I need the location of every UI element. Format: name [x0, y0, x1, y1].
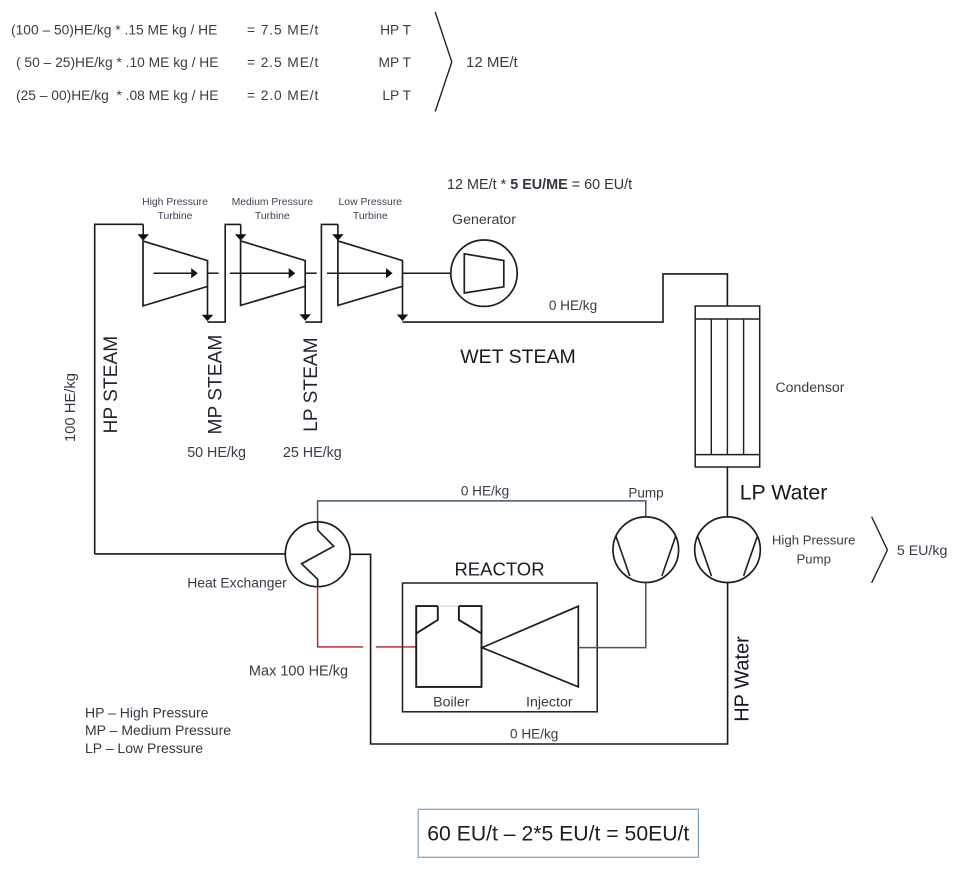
arrowhead into T2 — [235, 234, 246, 241]
label Low Pressure Turbine — [339, 197, 403, 222]
label High Pressure Turbine — [142, 197, 208, 222]
wire T2 exhaust down — [304, 286, 306, 315]
wire feed into turbine T1 — [142, 224, 144, 235]
equation line 3 LP — [16, 88, 412, 103]
brace chevron sum — [435, 12, 452, 112]
svg-text:REACTOR: REACTOR — [454, 558, 544, 579]
svg-text:5 EU/kg: 5 EU/kg — [897, 543, 947, 559]
shaft stub T2-T3 — [305, 272, 317, 274]
svg-text:0 HE/kg: 0 HE/kg — [461, 484, 509, 499]
generator G — [451, 240, 517, 306]
svg-text:60 EU/t – 2*5 EU/t = 50EU/t: 60 EU/t – 2*5 EU/t = 50EU/t — [427, 823, 689, 846]
svg-text:12 ME/t: 12 ME/t — [466, 54, 519, 71]
svg-text:100 HE/kg: 100 HE/kg — [63, 373, 79, 442]
svg-text:(100 – 50)HE/kg * .15 ME kg /: (100 – 50)HE/kg * .15 ME kg / HE — [11, 23, 217, 38]
shaft arrow inside T3 — [327, 272, 386, 274]
result box — [418, 809, 698, 857]
wire left feed to heat exchanger — [95, 553, 286, 555]
wire HP steam riser left — [95, 224, 144, 554]
svg-text:HP STEAM: HP STEAM — [101, 336, 122, 434]
heat exchanger HX — [285, 522, 350, 587]
turbine T2 Medium Pressure — [241, 241, 306, 306]
svg-text:HP – High Pressure: HP – High Pressure — [85, 705, 209, 721]
svg-text:MP – Medium Pressure: MP – Medium Pressure — [85, 722, 231, 738]
shaft arrow inside T2 — [230, 272, 289, 274]
label Medium Pressure Turbine — [232, 197, 314, 222]
wire feed into turbine T2 — [240, 224, 242, 235]
svg-text:LP – Low Pressure: LP – Low Pressure — [85, 740, 203, 756]
svg-text:12 ME/t * 5 EU/ME = 60 EU/t: 12 ME/t * 5 EU/ME = 60 EU/t — [447, 177, 632, 193]
svg-text:Turbine: Turbine — [255, 211, 290, 222]
svg-text:= 7.5 ME/t: = 7.5 ME/t — [247, 23, 319, 38]
svg-text:Medium Pressure: Medium Pressure — [232, 197, 314, 208]
svg-text:Condensor: Condensor — [776, 379, 845, 395]
svg-text:MP STEAM: MP STEAM — [206, 335, 227, 435]
pump P2 high pressure — [695, 517, 761, 583]
svg-text:Turbine: Turbine — [353, 211, 388, 222]
svg-text:25 HE/kg: 25 HE/kg — [283, 445, 342, 461]
wire feed into turbine T3 — [337, 224, 339, 235]
wire HX to HP water return — [350, 554, 727, 744]
wire wet steam to condenser — [403, 274, 728, 322]
svg-text:High Pressure: High Pressure — [772, 533, 856, 548]
arrowhead into T1 — [138, 234, 149, 241]
svg-text:HP T: HP T — [380, 23, 412, 38]
equation line 1 HP — [11, 23, 412, 38]
equation line 2 MP — [16, 55, 412, 70]
svg-text:Max 100 HE/kg: Max 100 HE/kg — [249, 664, 348, 680]
svg-text:Boiler: Boiler — [433, 694, 470, 710]
arrowhead T3 exhaust — [397, 315, 408, 322]
svg-text:WET STEAM: WET STEAM — [460, 346, 576, 368]
svg-text:Pump: Pump — [796, 552, 830, 567]
shaft to generator — [403, 272, 452, 274]
wire T1 exhaust down — [207, 286, 209, 315]
wire hot max 100 HE/kg red — [318, 587, 364, 647]
shaft arrow inside T1 — [154, 272, 192, 274]
wire T3 exhaust down — [402, 286, 404, 315]
svg-text:LP Water: LP Water — [740, 481, 828, 505]
svg-text:Low Pressure: Low Pressure — [339, 197, 403, 208]
arrowhead T2 exhaust — [300, 314, 311, 321]
svg-text:MP T: MP T — [379, 55, 412, 70]
injector — [482, 606, 578, 687]
wire LP steam jog — [305, 224, 338, 322]
svg-text:LP T: LP T — [382, 88, 411, 103]
svg-text:(25 – 00)HE/kg * .08 ME kg /: (25 – 00)HE/kg * .08 ME kg / HE — [16, 88, 218, 103]
turbine T1 High Pressure — [143, 241, 208, 306]
wire MP steam jog — [208, 224, 241, 322]
svg-text:Generator: Generator — [452, 212, 516, 228]
reactor box — [403, 583, 598, 712]
wire 0 HE/kg condensate blue — [318, 501, 646, 522]
svg-text:0 HE/kg: 0 HE/kg — [510, 726, 558, 741]
svg-text:Turbine: Turbine — [158, 211, 193, 222]
svg-text:HP Water: HP Water — [732, 636, 754, 722]
svg-text:0 HE/kg: 0 HE/kg — [549, 298, 597, 313]
svg-text:LP STEAM: LP STEAM — [301, 337, 322, 432]
svg-text:Pump: Pump — [628, 485, 663, 500]
shaft stub T1-T2 — [208, 272, 219, 274]
turbine T3 Low Pressure — [338, 241, 403, 306]
svg-text:( 50 – 25)HE/kg * .10 ME kg /: ( 50 – 25)HE/kg * .10 ME kg / HE — [16, 55, 218, 70]
label High Pressure Pump — [772, 533, 856, 567]
svg-text:= 2.5 ME/t: = 2.5 ME/t — [247, 55, 319, 70]
arrowhead into T3 — [332, 234, 343, 241]
arrowhead T1 exhaust — [202, 315, 213, 322]
condenser body — [695, 306, 760, 467]
wire injector to pump P1 blue — [578, 583, 646, 648]
legend HP — [85, 705, 231, 756]
svg-text:High Pressure: High Pressure — [142, 197, 208, 208]
svg-text:50 HE/kg: 50 HE/kg — [187, 445, 246, 461]
svg-text:Heat Exchanger: Heat Exchanger — [187, 574, 287, 590]
svg-text:= 2.0 ME/t: = 2.0 ME/t — [247, 88, 319, 103]
pump P1 — [613, 517, 679, 583]
chevron 5 EU/kg — [872, 517, 888, 583]
wire condenser to HP pump — [726, 467, 728, 517]
svg-text:Injector: Injector — [526, 694, 573, 710]
boiler — [416, 606, 481, 687]
condenser tubes — [710, 319, 712, 455]
